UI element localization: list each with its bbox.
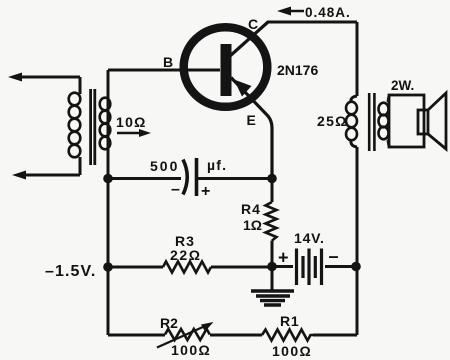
resistor R4 zigzag xyxy=(266,202,277,241)
svg-text:–: – xyxy=(171,181,180,198)
svg-text:R1: R1 xyxy=(280,313,300,329)
node junction right bus xyxy=(351,262,361,272)
ground symbol xyxy=(251,289,294,292)
wire bottom bus xyxy=(108,334,165,337)
svg-text:500: 500 xyxy=(150,158,179,174)
input arrow bottom xyxy=(22,174,80,177)
resistor R3 zigzag xyxy=(163,262,211,273)
svg-text:B: B xyxy=(163,54,173,70)
svg-text:–1.5V.: –1.5V. xyxy=(45,263,96,280)
svg-text:2W.: 2W. xyxy=(391,78,414,93)
battery B1 wire left xyxy=(272,265,293,268)
transistor Q1 2N176 circle xyxy=(184,27,268,107)
svg-text:R4: R4 xyxy=(241,201,261,217)
svg-text:14V.: 14V. xyxy=(294,230,325,246)
ground stem xyxy=(271,267,274,291)
speaker LS1 magnet box xyxy=(389,95,424,147)
transistor Q1 emitter lead xyxy=(231,78,272,179)
svg-text:–: – xyxy=(329,246,339,266)
transistor Q1 collector lead xyxy=(230,22,268,56)
wire R4 to battery junction xyxy=(271,241,274,267)
wire capacitor row left xyxy=(108,177,181,180)
transistor Q1 base bar xyxy=(221,44,232,96)
node junction battery plus xyxy=(267,262,277,272)
transformer T1 secondary coil xyxy=(100,98,111,111)
wire top collector to right bus xyxy=(267,21,357,24)
svg-text:1Ω: 1Ω xyxy=(243,217,262,233)
svg-text:+: + xyxy=(201,183,210,200)
capacitor C1 500uf straight plate xyxy=(195,158,199,196)
svg-text:2N176: 2N176 xyxy=(277,62,318,78)
battery B1 wire right xyxy=(325,265,356,268)
svg-text:100Ω: 100Ω xyxy=(272,343,312,359)
current arrow 0.48A xyxy=(287,10,304,13)
node junction -1.5V xyxy=(103,262,113,272)
transformer T2 primary coil 25ohm xyxy=(351,96,357,102)
resistor R2 zigzag potentiometer xyxy=(165,329,210,340)
node junction cap right xyxy=(267,174,277,184)
svg-text:100Ω: 100Ω xyxy=(171,342,211,358)
wire R3 row xyxy=(108,266,163,269)
battery B1 cells xyxy=(295,249,298,286)
svg-text:E: E xyxy=(247,112,256,128)
speaker LS1 voice coil xyxy=(418,110,428,134)
wire right vertical bus lower xyxy=(356,147,359,335)
svg-text:25Ω: 25Ω xyxy=(317,113,348,129)
svg-text:0.48A.: 0.48A. xyxy=(305,5,351,20)
svg-text:µf.: µf. xyxy=(207,157,227,173)
input arrow top xyxy=(18,76,80,79)
wire input top corner xyxy=(79,77,82,94)
wire base lead (B to transistor) xyxy=(108,69,220,72)
capacitor C1 500uf curved plate xyxy=(183,160,187,195)
svg-text:22Ω: 22Ω xyxy=(170,247,202,263)
node junction cap left xyxy=(103,174,113,184)
transformer T2 secondary coil xyxy=(379,103,389,116)
wire capacitor row right xyxy=(197,177,273,180)
svg-text:R2: R2 xyxy=(160,315,178,331)
wire left vertical bus xyxy=(107,70,110,335)
svg-text:C: C xyxy=(248,16,258,32)
resistor R1 zigzag xyxy=(262,330,313,341)
transformer T2 core xyxy=(368,93,371,151)
svg-text:10Ω: 10Ω xyxy=(116,114,147,130)
transistor Q1 emitter arrowhead xyxy=(234,80,252,97)
wire input bottom corner xyxy=(79,157,82,175)
transformer T1 primary coil xyxy=(69,93,81,106)
speaker LS1 cone xyxy=(428,93,446,149)
svg-text:+: + xyxy=(278,248,289,268)
wire right vertical bus upper xyxy=(356,22,359,96)
wire emitter to R4 xyxy=(271,179,274,203)
transformer T1 core xyxy=(89,89,92,165)
